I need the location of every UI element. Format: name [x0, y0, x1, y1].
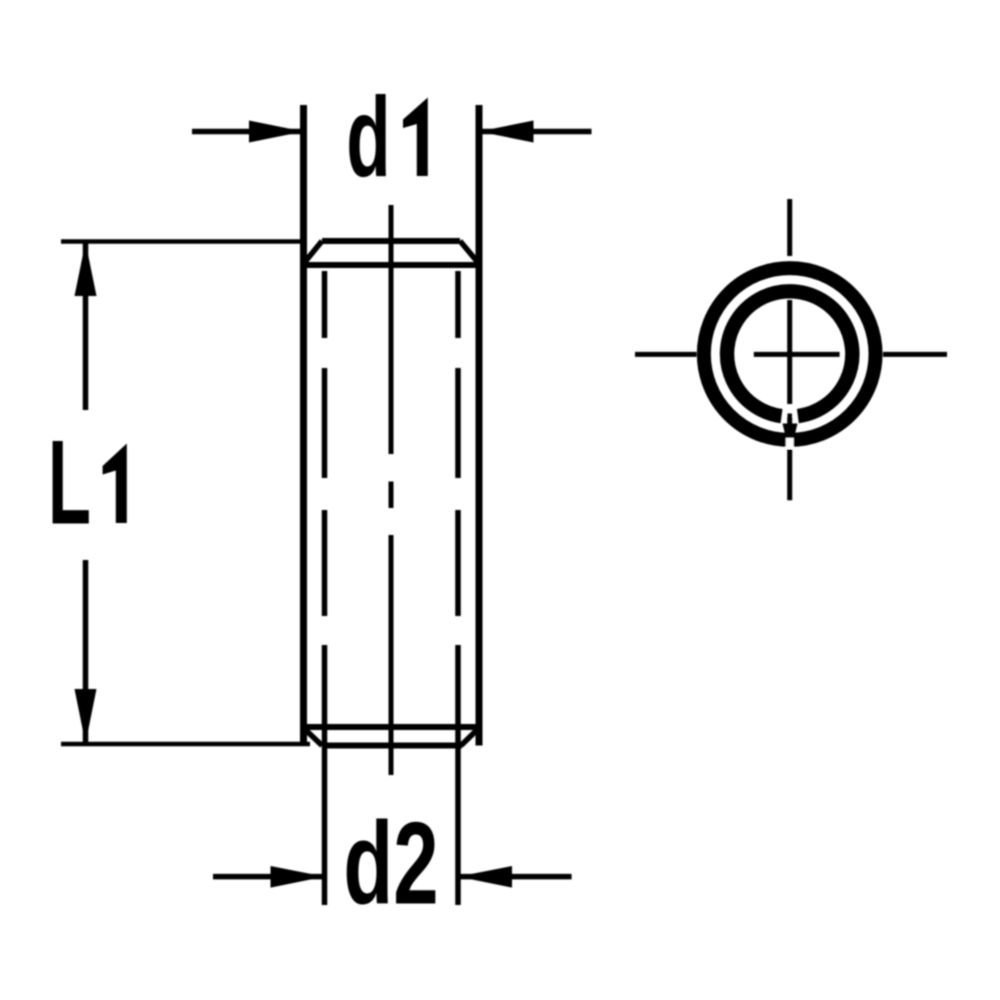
svg-text:L: L: [48, 415, 91, 549]
svg-text:d: d: [346, 75, 390, 201]
svg-text:d2: d2: [343, 799, 438, 929]
